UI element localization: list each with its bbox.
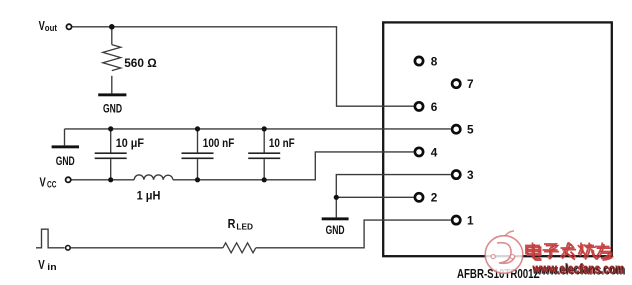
- svg-text:8: 8: [431, 54, 438, 68]
- svg-text:4: 4: [431, 145, 438, 159]
- svg-text:7: 7: [467, 77, 474, 91]
- svg-text:3: 3: [467, 168, 474, 182]
- svg-text:100 nF: 100 nF: [203, 138, 235, 150]
- svg-text:out: out: [45, 23, 57, 33]
- svg-text:10 nF: 10 nF: [269, 138, 295, 150]
- svg-text:V: V: [40, 174, 46, 189]
- svg-text:5: 5: [467, 123, 474, 137]
- svg-text:10 μF: 10 μF: [116, 138, 144, 150]
- svg-text:1 μH: 1 μH: [137, 190, 161, 202]
- svg-text:LED: LED: [236, 222, 253, 232]
- svg-text:www.elecfans.com: www.elecfans.com: [532, 262, 624, 277]
- svg-text:R: R: [228, 217, 236, 231]
- svg-text:GND: GND: [103, 101, 122, 115]
- svg-text:CC: CC: [47, 179, 57, 189]
- svg-text:1: 1: [467, 214, 474, 228]
- svg-text:560 Ω: 560 Ω: [124, 56, 157, 70]
- svg-text:V: V: [38, 257, 45, 272]
- svg-text:in: in: [47, 262, 56, 272]
- svg-text:GND: GND: [326, 223, 345, 237]
- svg-text:GND: GND: [56, 154, 75, 168]
- svg-text:2: 2: [431, 191, 438, 205]
- svg-text:6: 6: [431, 100, 438, 114]
